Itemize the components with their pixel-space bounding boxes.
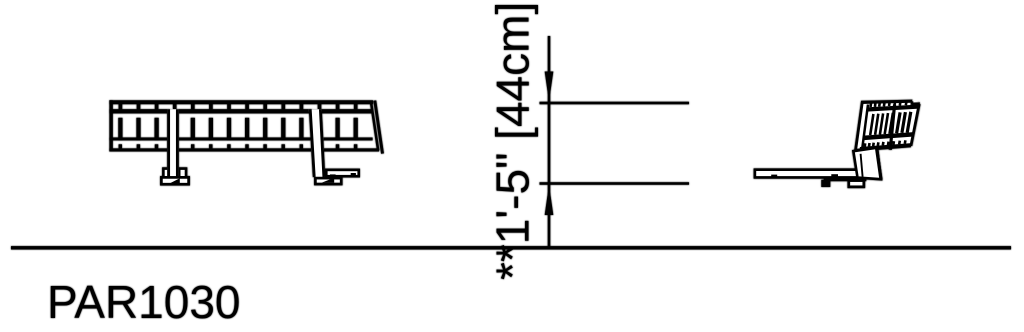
- seat slat gaps: [118, 118, 358, 140]
- ground line: [11, 246, 1011, 249]
- right end outer slant edge: [375, 101, 383, 154]
- left foot wedge: [170, 178, 180, 183]
- top dash row slat gaps: [119, 104, 358, 109]
- dimension line: [548, 36, 551, 247]
- anchor bracket: [849, 181, 864, 187]
- panel bottom band: [860, 143, 912, 150]
- panel band B: [867, 105, 918, 112]
- extension line top: [540, 102, 690, 105]
- bench top edge band: [109, 100, 373, 104]
- right foot plate: [315, 178, 341, 184]
- right foot bar: [326, 170, 358, 176]
- left leg: [167, 109, 178, 176]
- panel left face line: [862, 105, 868, 150]
- left leg tabs: [163, 169, 170, 178]
- ground bar: [755, 170, 877, 178]
- arrow down: [545, 72, 554, 102]
- panel hatch left group: [870, 113, 893, 135]
- anchor foot: [821, 180, 830, 187]
- right foot wedge: [322, 178, 335, 183]
- side leg quad: [853, 148, 881, 180]
- svg-text:PAR1030: PAR1030: [47, 276, 241, 328]
- panel top band: [861, 101, 912, 102]
- bottom dash row slat gaps: [119, 144, 358, 148]
- left foot plate: [161, 177, 188, 184]
- panel dash row 1: [871, 101, 913, 107]
- panel band C: [863, 132, 914, 140]
- anchor nub: [831, 174, 838, 177]
- bench left end edge: [109, 100, 112, 151]
- panel top step band: [912, 102, 919, 106]
- seat panel fill: [856, 100, 920, 150]
- bench front view: [109, 100, 382, 184]
- panel right edge: [911, 104, 919, 146]
- leg front edge: [876, 146, 881, 180]
- panel middle divider: [890, 105, 894, 150]
- bench side view: [755, 100, 920, 187]
- anchor band: [824, 177, 867, 181]
- bench upper rail band: [109, 109, 371, 113]
- panel left edge: [856, 102, 863, 150]
- bench bottom edge band: [109, 148, 379, 151]
- panel bottom edge: [856, 146, 911, 150]
- bolt marks: [330, 174, 336, 177]
- side leg inner line: [861, 154, 863, 177]
- arrow up: [545, 185, 554, 215]
- right leg: [309, 109, 326, 177]
- panel dash row 2: [865, 140, 906, 147]
- extension line bottom: [540, 182, 690, 185]
- bar notch: [771, 175, 777, 178]
- bench lower rail band: [109, 138, 372, 141]
- svg-text:**1'-5" [44cm]: **1'-5" [44cm]: [487, 2, 539, 280]
- panel hatch right group: [897, 112, 911, 134]
- right end inner slant edge: [371, 102, 378, 151]
